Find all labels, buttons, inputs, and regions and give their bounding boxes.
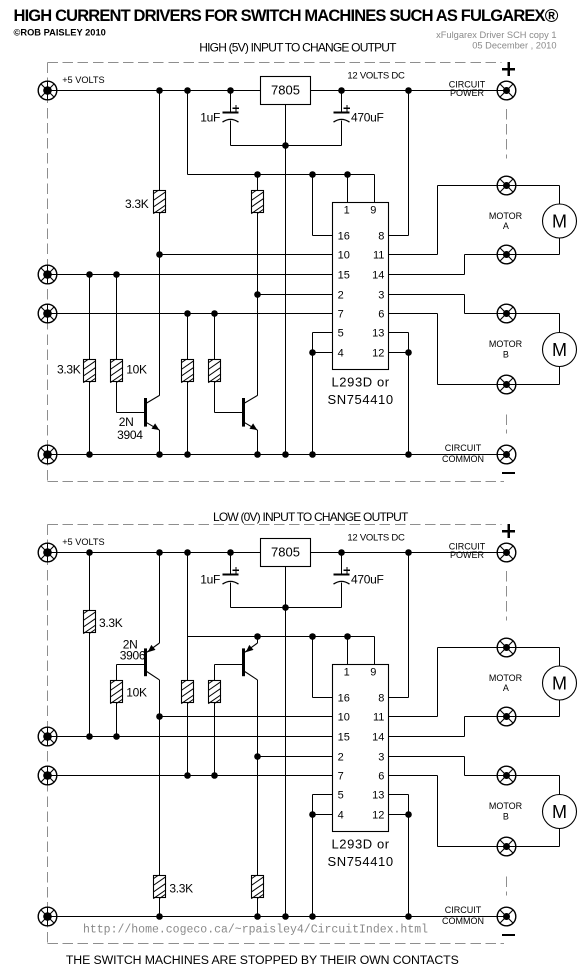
- dashed enclosure border (right segment 1): [506, 109, 508, 159]
- capacitor C1 1uF: [223, 567, 240, 584]
- junction dots ground verticals: [309, 811, 316, 818]
- junction dot cap ground: [282, 604, 289, 611]
- driver IC U2 L293D box: [333, 665, 389, 832]
- wire: input A line to pin 15: [48, 736, 333, 738]
- svg-text:5: 5: [338, 790, 344, 802]
- svg-text:THE SWITCH MACHINES ARE STOPPE: THE SWITCH MACHINES ARE STOPPED BY THEIR…: [66, 953, 459, 967]
- resistor R3 3.3K pulldown A: [83, 359, 96, 383]
- svg-text:5: 5: [338, 328, 344, 340]
- resistor R8 10K base Q3: [110, 680, 123, 704]
- terminal: motor A bottom: [497, 707, 516, 726]
- wire: pin 8 connection from 12V rail: [408, 553, 410, 698]
- wire: +5V rail left segment: [48, 90, 261, 92]
- wire: capacitor ground link: [231, 145, 342, 147]
- terminal: circuit common left: [38, 907, 57, 926]
- svg-text:3.3K: 3.3K: [125, 197, 149, 211]
- terminal: circuit common left: [38, 445, 57, 464]
- terminal: circuit common right: [497, 445, 516, 464]
- terminal: motor B top: [497, 304, 516, 323]
- junction dots input A line: [86, 733, 93, 740]
- wire: Q1 PNP emitter to rail: [159, 553, 161, 644]
- svg-text:A: A: [503, 221, 509, 231]
- junction dots on +5 rail: [156, 549, 163, 556]
- wire: 12V rail right segment: [311, 90, 507, 92]
- wire: pins 5,4 ground: [313, 794, 333, 796]
- wire: 1uF leads: [230, 553, 232, 575]
- resistor R11 3.3K collector Q3: [153, 875, 166, 899]
- junction dots input B line: [184, 772, 191, 779]
- wire: pins 13,12 ground: [389, 332, 409, 334]
- terminal: circuit power 12V: [497, 543, 516, 562]
- resistor R7 3.3K pull-up A: [83, 610, 96, 634]
- wire: pin 11 to motor A top: [389, 716, 438, 718]
- power minus symbol: [502, 934, 515, 936]
- dashed enclosure border (left): [47, 63, 49, 482]
- capacitor C2 470uF: [334, 567, 351, 584]
- junction dots on common rail: [156, 913, 163, 920]
- junction dots on +5 rail: [156, 87, 163, 94]
- svg-text:8: 8: [378, 231, 384, 243]
- motor A: [543, 666, 577, 700]
- svg-text:8: 8: [378, 693, 384, 705]
- wire: capacitor ground link: [231, 607, 342, 609]
- terminal: +5V supply: [38, 543, 57, 562]
- svg-text:B: B: [503, 812, 509, 822]
- wire: pin 9 drop: [374, 637, 376, 665]
- svg-text:A: A: [503, 683, 509, 693]
- terminal: motor A bottom: [497, 245, 516, 264]
- wire: pin 2 line: [258, 756, 333, 758]
- svg-text:3: 3: [378, 752, 384, 764]
- power minus symbol: [502, 472, 515, 474]
- svg-text:470uF: 470uF: [351, 111, 384, 125]
- svg-text:13: 13: [372, 328, 384, 340]
- wire: pin 10 line: [160, 254, 333, 256]
- svg-text:6: 6: [378, 771, 384, 783]
- svg-text:12: 12: [372, 810, 384, 822]
- svg-text:COMMON: COMMON: [442, 916, 484, 926]
- transistor Q4 2N3906: [242, 643, 258, 680]
- terminal: motor A top: [497, 176, 516, 195]
- resistor R6 10K base Q2: [208, 359, 221, 383]
- capacitor C1 1uF: [223, 105, 240, 122]
- wire: Q1 collector down to pin10 node and 3.3K to common: [159, 680, 161, 717]
- svg-text:11: 11: [373, 250, 384, 262]
- resistor R2 pull-up: [251, 190, 264, 214]
- svg-text:COMMON: COMMON: [442, 454, 484, 464]
- svg-text:16: 16: [338, 693, 350, 705]
- wire: 7805 ground drop: [285, 567, 287, 917]
- svg-text:3: 3: [378, 290, 384, 302]
- svg-text:470uF: 470uF: [351, 573, 384, 587]
- svg-text:12 VOLTS DC: 12 VOLTS DC: [347, 71, 405, 82]
- svg-text:10: 10: [338, 712, 350, 724]
- svg-text:MOTOR: MOTOR: [489, 211, 523, 221]
- transistor Q3 2N3906: [144, 643, 160, 680]
- junction dots on common rail: [156, 451, 163, 458]
- svg-text:3906: 3906: [120, 649, 146, 663]
- wire: 10K base resistor + lead Q1: [117, 664, 145, 666]
- svg-text:1uF: 1uF: [200, 573, 220, 587]
- wire: 10K base resistor + lead Q2: [215, 664, 243, 666]
- svg-text:10K: 10K: [126, 685, 147, 699]
- svg-text:13: 13: [372, 790, 384, 802]
- wire: 10K base resistor vertical + base lead Q1: [116, 275, 118, 360]
- svg-text:10K: 10K: [126, 362, 147, 376]
- wire: input B line to pin 7: [48, 775, 333, 777]
- wire: input B pulldown R4 vertical: [187, 314, 189, 360]
- svg-text:6: 6: [378, 309, 384, 321]
- wire: common rail: [48, 454, 507, 456]
- svg-text:L293D or: L293D or: [331, 837, 389, 852]
- driver IC U2 L293D box: [333, 203, 389, 370]
- svg-text:7: 7: [338, 771, 344, 783]
- wire: input A line to pin 15: [48, 274, 333, 276]
- wire: pin 16 connection: [312, 175, 314, 236]
- svg-text:2: 2: [338, 752, 344, 764]
- svg-text:SN754410: SN754410: [327, 854, 393, 869]
- resistor R12 3.3K collector Q4: [251, 875, 264, 899]
- wire: Q2 collector down to pin2 node and 3.3K to common: [257, 680, 259, 757]
- wire: Q2 PNP emitter to sub-line: [257, 637, 259, 644]
- svg-text:MOTOR: MOTOR: [489, 801, 523, 811]
- svg-text:7805: 7805: [271, 545, 300, 560]
- svg-text:+5 VOLTS: +5 VOLTS: [62, 75, 104, 85]
- resistor R5 pulldown B: [181, 359, 194, 383]
- svg-text:3.3K: 3.3K: [169, 881, 193, 895]
- svg-text:11: 11: [373, 712, 384, 724]
- resistor R9 pull-up B: [181, 680, 194, 704]
- svg-text:2: 2: [338, 290, 344, 302]
- resistor R10 10K base Q4: [208, 680, 221, 704]
- terminal: motor B top: [497, 766, 516, 785]
- svg-text:4: 4: [338, 348, 344, 360]
- junction dot pin2 node: [254, 753, 261, 760]
- wire: common rail: [48, 916, 507, 918]
- resistor R4 10K base Q1: [110, 359, 123, 383]
- svg-text:14: 14: [372, 270, 384, 282]
- svg-text:xFulgarex Driver SCH copy 1: xFulgarex Driver SCH copy 1: [436, 30, 556, 40]
- svg-text:M: M: [552, 340, 567, 360]
- svg-text:©ROB PAISLEY 2010: ©ROB PAISLEY 2010: [14, 28, 106, 38]
- wire: +5 sub-line: [188, 174, 375, 176]
- svg-text:HIGH CURRENT DRIVERS FOR SWITC: HIGH CURRENT DRIVERS FOR SWITCH MACHINES…: [14, 5, 559, 26]
- svg-text:M: M: [552, 802, 567, 822]
- capacitor C2 470uF: [334, 105, 351, 122]
- wire: 10K base resistor vertical + base lead Q2: [214, 314, 216, 360]
- wire: motor A feed vertical: [559, 648, 561, 667]
- junction dot pin10 node: [156, 713, 163, 720]
- svg-text:+5 VOLTS: +5 VOLTS: [62, 537, 104, 547]
- dashed enclosure border (right segment 2): [506, 415, 508, 434]
- svg-text:12: 12: [372, 348, 384, 360]
- wire: 12V rail right segment: [311, 552, 507, 554]
- svg-text:CIRCUIT: CIRCUIT: [445, 905, 482, 915]
- terminal: input A: [38, 265, 57, 284]
- svg-text:http://home.cogeco.ca/~rpaisle: http://home.cogeco.ca/~rpaisley4/Circuit…: [83, 924, 428, 937]
- svg-text:LOW (0V) INPUT TO CHANGE OUTPU: LOW (0V) INPUT TO CHANGE OUTPUT: [213, 510, 409, 524]
- dashed enclosure border (right segment 1): [506, 571, 508, 621]
- terminal: motor A top: [497, 638, 516, 657]
- svg-text:1: 1: [344, 667, 350, 679]
- junction dot pin2 node: [254, 291, 261, 298]
- wire: motor A feed vertical: [559, 186, 561, 205]
- dashed enclosure border (bottom): [48, 943, 505, 945]
- svg-text:MOTOR: MOTOR: [489, 673, 523, 683]
- wire: pins 13,12 ground: [389, 794, 409, 796]
- wire: +5 sub-line: [188, 636, 375, 638]
- svg-text:7: 7: [338, 309, 344, 321]
- wire: sub-line drop from rail: [187, 553, 189, 637]
- svg-text:MOTOR: MOTOR: [489, 339, 523, 349]
- wire: 1uF leads: [230, 91, 232, 113]
- svg-text:1uF: 1uF: [200, 111, 220, 125]
- wire: 3.3K pull-up (rail to input A line): [89, 553, 91, 612]
- terminal: motor B bottom: [497, 375, 516, 394]
- svg-text:15: 15: [338, 270, 350, 282]
- wire: pin 3 to motor B top: [389, 294, 465, 296]
- transistor Q2 2N3904: [242, 395, 258, 430]
- svg-text:M: M: [552, 211, 567, 231]
- junction dots on sub-line: [254, 633, 261, 640]
- wire: pin 6 to motor B bottom: [389, 313, 438, 315]
- voltage regulator U1 7805: [261, 539, 311, 567]
- wire: +5V rail left segment: [48, 552, 261, 554]
- dashed enclosure border (right segment 2): [506, 877, 508, 896]
- wire: motor A return: [559, 238, 561, 255]
- svg-text:HIGH (5V) INPUT TO CHANGE OUTP: HIGH (5V) INPUT TO CHANGE OUTPUT: [199, 40, 397, 54]
- wire: Q1 emitter to common: [159, 430, 161, 454]
- wire: pin 10 line: [160, 716, 333, 718]
- svg-text:15: 15: [338, 732, 350, 744]
- transistor Q1 2N3904: [144, 395, 160, 430]
- svg-text:7805: 7805: [271, 83, 300, 98]
- junction dots input A line: [86, 271, 93, 278]
- terminal: +5V supply: [38, 81, 57, 100]
- svg-text:CIRCUIT: CIRCUIT: [445, 443, 482, 453]
- wire: pin 3 to motor B top: [389, 756, 465, 758]
- junction dot pin10 node: [156, 251, 163, 258]
- wire: pin 2 line: [258, 294, 333, 296]
- wire: input B line to pin 7: [48, 313, 333, 315]
- svg-text:SN754410: SN754410: [327, 392, 393, 407]
- svg-text:9: 9: [370, 667, 376, 679]
- wire: pin 1 drop: [347, 637, 349, 665]
- wire: input A pulldown R3 vertical: [89, 275, 91, 360]
- junction dots on sub-line: [254, 171, 261, 178]
- wire: R2 pull-up vertical (sub-line to pin2 node to Q2 collector): [257, 175, 259, 191]
- dashed enclosure border (top): [48, 524, 502, 526]
- wire: pin 16 connection: [312, 637, 314, 698]
- power plus symbol: [502, 62, 515, 76]
- wire: 470uF leads: [341, 553, 343, 575]
- resistor R1 3.3K pull-up: [153, 190, 166, 214]
- terminal: input B: [38, 304, 57, 323]
- svg-text:12 VOLTS DC: 12 VOLTS DC: [347, 533, 405, 544]
- svg-text:L293D or: L293D or: [331, 375, 389, 390]
- junction dots ground verticals: [309, 349, 316, 356]
- motor B: [543, 333, 577, 367]
- terminal: input A: [38, 727, 57, 746]
- wire: pin 11 to motor A top: [389, 254, 438, 256]
- svg-text:M: M: [552, 673, 567, 693]
- svg-text:14: 14: [372, 732, 384, 744]
- svg-text:POWER: POWER: [450, 88, 485, 98]
- wire: R1 pull-up vertical (rail to pin10 node to Q1 collector): [159, 91, 161, 191]
- dashed enclosure border (top): [48, 62, 502, 64]
- wire: Q2 emitter to common: [257, 430, 259, 454]
- svg-text:10: 10: [338, 250, 350, 262]
- wire: pins 5,4 ground: [313, 332, 333, 334]
- terminal: circuit common right: [497, 907, 516, 926]
- svg-text:POWER: POWER: [450, 550, 485, 560]
- power plus symbol: [502, 524, 515, 538]
- motor B: [543, 795, 577, 829]
- svg-text:3904: 3904: [117, 428, 143, 442]
- junction dots input B line: [184, 310, 191, 317]
- svg-text:B: B: [503, 350, 509, 360]
- wire: pin 8 connection from 12V rail: [408, 91, 410, 236]
- svg-text:05 December , 2010: 05 December , 2010: [472, 40, 556, 50]
- svg-text:1: 1: [344, 205, 350, 217]
- dashed enclosure border (left): [47, 525, 49, 944]
- motor A: [543, 204, 577, 238]
- voltage regulator U1 7805: [261, 77, 311, 105]
- wire: 3.3K pull-up for input B (sub-line to input B line): [187, 637, 189, 681]
- terminal: input B: [38, 766, 57, 785]
- wire: pin 9 drop: [374, 175, 376, 203]
- wire: 7805 ground drop: [285, 105, 287, 455]
- wire: 470uF leads: [341, 91, 343, 113]
- terminal: circuit power 12V: [497, 81, 516, 100]
- svg-text:16: 16: [338, 231, 350, 243]
- junction dot cap ground: [282, 142, 289, 149]
- dashed enclosure border (bottom): [48, 481, 505, 483]
- wire: pin 1 drop: [347, 175, 349, 203]
- svg-text:3.3K: 3.3K: [57, 362, 81, 376]
- svg-text:9: 9: [370, 205, 376, 217]
- terminal: motor B bottom: [497, 837, 516, 856]
- svg-text:4: 4: [338, 810, 344, 822]
- wire: sub-line drop from rail: [187, 91, 189, 175]
- svg-text:3.3K: 3.3K: [99, 616, 123, 630]
- wire: pin 6 to motor B bottom: [389, 775, 438, 777]
- wire: motor A return: [559, 700, 561, 717]
